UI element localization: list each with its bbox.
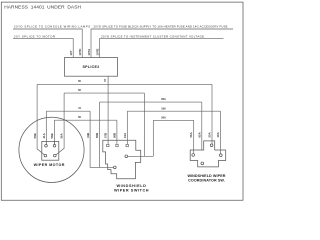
svg-text:56A: 56A — [60, 133, 64, 138]
svg-text:WIPER SWITCH: WIPER SWITCH — [114, 188, 149, 192]
svg-text:19A: 19A — [161, 107, 166, 110]
svg-text:19TA: 19TA — [87, 49, 91, 56]
svg-text:19TD: 19TD — [78, 49, 82, 56]
svg-text:65A: 65A — [161, 98, 166, 101]
svg-text:50B: 50B — [33, 133, 37, 138]
svg-text:19TB: 19TB — [95, 49, 99, 56]
svg-text:19Y: 19Y — [69, 50, 73, 55]
svg-text:57B: 57B — [104, 133, 108, 138]
svg-text:56A: 56A — [161, 116, 166, 119]
svg-text:WINDSHIELD WIPER: WINDSHIELD WIPER — [187, 174, 225, 178]
svg-text:SPLICE2: SPLICE2 — [82, 65, 99, 69]
svg-text:19A: 19A — [123, 133, 127, 138]
svg-text:20YD SPLICE TO FUSE BLOCK-SUPP: 20YD SPLICE TO FUSE BLOCK-SUPPLY TO 16A … — [94, 25, 228, 29]
svg-text:65B: 65B — [95, 133, 99, 138]
svg-text:20Y SPLICE TO MOTOR: 20Y SPLICE TO MOTOR — [14, 35, 55, 39]
svg-text:56B: 56B — [113, 133, 117, 138]
svg-text:19A: 19A — [216, 132, 220, 137]
svg-text:65A: 65A — [198, 132, 202, 137]
svg-text:56A: 56A — [189, 132, 193, 137]
svg-text:20YD SPLICE TO CONSOLE WIRING: 20YD SPLICE TO CONSOLE WIRING LAMPS — [14, 25, 90, 29]
svg-text:WIPER MOTOR: WIPER MOTOR — [34, 163, 65, 167]
svg-text:COORDINATOR SW.: COORDINATOR SW. — [188, 179, 225, 183]
svg-text:41A: 41A — [42, 133, 46, 138]
svg-text:50A: 50A — [208, 132, 212, 137]
svg-text:57: 57 — [103, 78, 107, 82]
svg-text:20YD SPLICE TO INSTRUMENT CLUS: 20YD SPLICE TO INSTRUMENT CLUSTER CONSTA… — [101, 35, 204, 39]
svg-text:56B: 56B — [50, 133, 54, 138]
svg-text:HARNESS 14401 UNDER DASH: HARNESS 14401 UNDER DASH — [4, 5, 81, 11]
svg-text:41B: 41B — [86, 133, 90, 138]
